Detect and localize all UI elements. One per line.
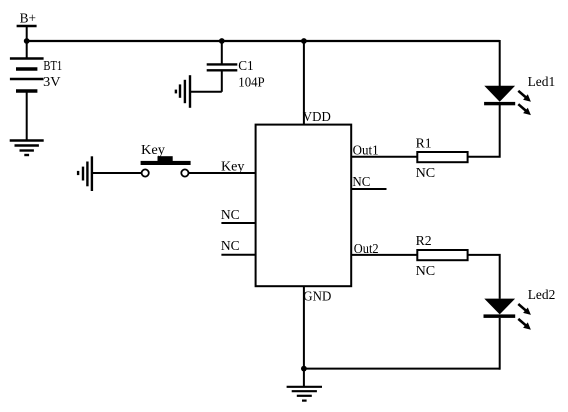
svg-text:C1: C1	[238, 59, 253, 74]
svg-text:B+: B+	[20, 11, 36, 26]
svg-text:Out2: Out2	[354, 242, 379, 257]
svg-text:3V: 3V	[43, 75, 60, 90]
svg-text:BT1: BT1	[43, 59, 62, 74]
svg-text:Led1: Led1	[528, 75, 556, 90]
svg-text:NC: NC	[416, 264, 436, 279]
svg-text:Out1: Out1	[353, 144, 379, 159]
svg-text:Key: Key	[221, 160, 244, 175]
svg-text:VDD: VDD	[303, 110, 331, 125]
svg-text:Key: Key	[141, 143, 165, 158]
svg-text:Led2: Led2	[528, 288, 556, 303]
svg-text:R1: R1	[416, 137, 432, 152]
svg-text:NC: NC	[221, 239, 240, 254]
svg-text:NC: NC	[352, 175, 370, 190]
svg-text:R2: R2	[416, 234, 432, 249]
svg-text:NC: NC	[221, 208, 240, 223]
svg-text:104P: 104P	[238, 76, 265, 91]
svg-text:GND: GND	[303, 290, 331, 305]
svg-text:NC: NC	[416, 166, 436, 181]
